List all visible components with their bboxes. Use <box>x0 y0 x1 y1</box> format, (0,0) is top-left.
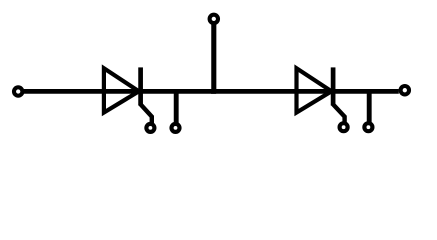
thyristor T1 gate lead <box>140 104 152 124</box>
wire: left main terminal to thyristor T1 cathode bar (main bus, passes through T1 triangle) <box>24 89 142 94</box>
thyristor T2 cathode bar <box>331 67 336 105</box>
wire: T2 cathode bar to right main terminal <box>331 89 399 94</box>
wire: top-terminal junction to thyristor T2 cathode bar (passes through T2 triangle) <box>211 89 334 94</box>
thyristor T2 gate lead <box>332 104 344 124</box>
terminal: T1 auxiliary cathode terminal <box>172 124 180 132</box>
wire: center node to top terminal <box>211 24 216 93</box>
thyristor T1 cathode bar <box>138 67 143 105</box>
terminal: T2 auxiliary cathode terminal <box>364 123 372 131</box>
thyristor T2 anode triangle <box>297 68 332 112</box>
terminal: T1 gate terminal <box>146 124 154 132</box>
terminal: top main terminal <box>210 15 218 23</box>
thyristor T1 anode triangle <box>104 68 139 112</box>
terminal: right main terminal <box>401 86 409 94</box>
wire: T1 cathode bar to T1 auxiliary-cathode junction <box>138 89 178 94</box>
wire: T2 auxiliary cathode lead <box>367 89 372 122</box>
terminal: T2 gate terminal <box>340 123 348 131</box>
wire: T1 auxiliary cathode lead <box>174 89 179 123</box>
wire: T1 auxiliary-cathode junction to top-terminal junction (center node) <box>174 89 216 94</box>
terminal: left main terminal <box>14 87 22 95</box>
